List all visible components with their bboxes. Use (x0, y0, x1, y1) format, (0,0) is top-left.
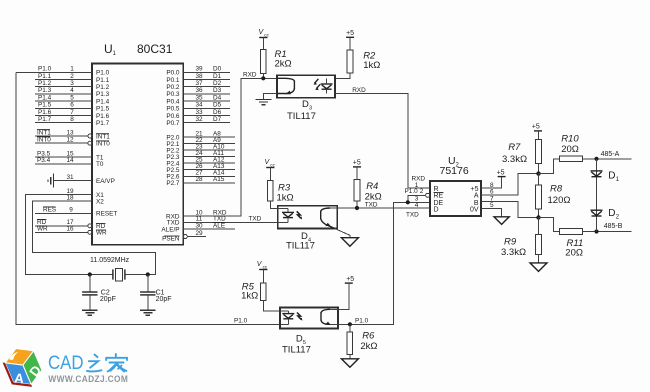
svg-text:3: 3 (70, 80, 74, 87)
svg-text:75176: 75176 (440, 165, 469, 177)
svg-text:D: D (608, 171, 615, 182)
svg-text:13: 13 (66, 129, 74, 136)
ground sideways at EA/VP (48, 174, 54, 188)
svg-text:P0.6: P0.6 (166, 113, 180, 120)
svg-text:4: 4 (70, 87, 74, 94)
resistor R6 2k (347, 324, 377, 359)
svg-text:28: 28 (195, 176, 203, 183)
svg-text:D5: D5 (213, 102, 222, 109)
svg-text:2kΩ: 2kΩ (360, 341, 377, 352)
svg-text:R8: R8 (550, 184, 563, 195)
node RE DE junction (406, 200, 410, 204)
svg-text:16: 16 (66, 226, 74, 233)
wire RD stub pin 17 with bubble (35, 219, 92, 228)
wire P1.7 stub pin 8 (35, 116, 92, 123)
light arrow inside D4 (297, 211, 302, 219)
op-amp U2 body 75176 transceiver box (430, 155, 481, 216)
svg-text:RXD: RXD (412, 175, 426, 182)
node crystal right junction (146, 272, 150, 276)
svg-text:TXD: TXD (249, 216, 262, 223)
svg-text:R9: R9 (504, 237, 517, 248)
svg-text:D1: D1 (213, 73, 222, 80)
ground arrow below R6 (341, 359, 358, 368)
svg-text:+5: +5 (353, 160, 361, 167)
ground arrow below U2 pin 5 (494, 217, 509, 225)
svg-text:12: 12 (66, 137, 74, 144)
svg-text:20pF: 20pF (100, 296, 116, 303)
wire P1.0 net from pin 1 down and along bottom to optocoupler D5 (16, 72, 288, 324)
wire U2 pin 6 A to node A (481, 174, 539, 196)
svg-text:33: 33 (195, 109, 203, 116)
svg-text:P1.7: P1.7 (38, 116, 52, 123)
svg-text:32: 32 (195, 116, 203, 123)
svg-text:P1.5: P1.5 (38, 102, 52, 109)
wire P2.3 stub pin 24 A11 (183, 150, 235, 157)
svg-text:120Ω: 120Ω (548, 195, 571, 206)
logo cube CAD (0, 342, 48, 392)
svg-text:6: 6 (70, 102, 74, 109)
wire diode column between 485-A and 485-B (596, 159, 598, 232)
svg-text:D4: D4 (213, 94, 222, 101)
wire D3 emitter to ground (264, 94, 278, 99)
svg-text:P3.4: P3.4 (37, 157, 51, 164)
svg-text:P1.6: P1.6 (96, 113, 110, 120)
svg-text:TIL117: TIL117 (286, 241, 315, 252)
svg-text:P1.4: P1.4 (38, 94, 52, 101)
svg-text:8: 8 (70, 116, 74, 123)
svg-text:36: 36 (195, 87, 203, 94)
wire node B to R11 (539, 218, 560, 232)
svg-text:+5: +5 (346, 276, 354, 283)
+5 symbol above R2 (346, 30, 354, 50)
crystal Y1 11.0592MHz (90, 257, 130, 281)
svg-text:P1.2: P1.2 (96, 84, 110, 91)
svg-text:TIL117: TIL117 (287, 111, 316, 122)
svg-text:A: A (474, 193, 479, 200)
svg-text:485-B: 485-B (604, 223, 623, 230)
svg-text:T0: T0 (96, 161, 104, 168)
svg-text:+5: +5 (346, 30, 354, 37)
svg-text:P0.3: P0.3 (166, 91, 180, 98)
svg-text:TXD: TXD (365, 201, 378, 208)
diode D2 (591, 208, 620, 221)
svg-text:D7: D7 (213, 116, 222, 123)
svg-text:30: 30 (195, 222, 203, 229)
svg-text:R7: R7 (508, 142, 521, 153)
svg-text:TXD: TXD (406, 212, 419, 219)
svg-text:11.0592MHz: 11.0592MHz (90, 257, 130, 264)
wire P0.1 stub pin 38 D1 (183, 73, 230, 80)
+5 symbol above R4 (353, 160, 361, 180)
svg-text:P1.0: P1.0 (355, 318, 369, 325)
transistor phototransistor of D4 (321, 208, 335, 228)
svg-text:2: 2 (616, 214, 620, 220)
svg-text:ALE/P: ALE/P (161, 226, 179, 233)
svg-text:EA/VP: EA/VP (96, 178, 115, 185)
svg-text:INT1: INT1 (96, 133, 110, 140)
svg-text:P0.4: P0.4 (166, 98, 180, 105)
svg-text:14: 14 (66, 157, 74, 164)
pin names inside U1 right column (161, 70, 180, 243)
Vcc symbol above R1 (259, 29, 270, 49)
svg-text:1kΩ: 1kΩ (363, 60, 380, 71)
svg-text:D6: D6 (213, 109, 222, 116)
wire P0.0 stub pin 39 D0 (183, 66, 230, 73)
op-amp U1 body 80C31 microcontroller box (92, 42, 183, 245)
svg-text:P1.0: P1.0 (96, 70, 110, 77)
svg-text:2: 2 (420, 188, 424, 195)
svg-text:P2.7: P2.7 (166, 180, 180, 187)
wire P1.4 stub pin 5 (35, 94, 92, 101)
svg-text:35: 35 (195, 94, 203, 101)
wire P2.6 stub pin 27 A14 (183, 170, 235, 177)
svg-text:P1.5: P1.5 (96, 106, 110, 113)
svg-text:18: 18 (66, 194, 74, 201)
resistor R4 2k (354, 180, 382, 209)
wire P0.3 stub pin 36 D3 (183, 87, 230, 94)
svg-text:RXD: RXD (243, 72, 257, 79)
wire P0.2 stub pin 37 D2 (183, 80, 230, 87)
node A junction (536, 171, 540, 175)
wire P1.3 stub pin 4 (35, 87, 92, 94)
svg-text:D3: D3 (213, 87, 222, 94)
wire PSEN stub pin 29 with bubble (183, 230, 206, 239)
svg-text:P1.0: P1.0 (405, 188, 419, 195)
svg-text:P1.3: P1.3 (96, 91, 110, 98)
pin names inside U1 left column (96, 70, 117, 237)
svg-text:INT0: INT0 (37, 137, 51, 144)
svg-text:5: 5 (490, 202, 494, 209)
capacitor C1 20pF (140, 275, 171, 310)
node crystal left junction (88, 272, 92, 276)
resistor R2 1k (335, 50, 380, 79)
svg-text:P0.1: P0.1 (166, 77, 180, 84)
wire P2.4 stub pin 25 A12 (183, 157, 235, 164)
optocoupler D5 TIL117 box (280, 308, 338, 356)
svg-text:RXD: RXD (352, 87, 366, 94)
svg-text:P0.7: P0.7 (166, 120, 180, 127)
svg-text:P1.0: P1.0 (38, 66, 52, 73)
wire P2.1 stub pin 22 A9 (183, 137, 235, 144)
wire P3.4 stub pin 14 (35, 157, 92, 164)
svg-text:7: 7 (70, 109, 74, 116)
wire D4 collector TXD to U2 pin 4 (330, 201, 430, 208)
ground below D3 emitter (256, 99, 272, 104)
svg-text:D: D (608, 208, 615, 219)
wire X2 pin 18 to crystal (33, 194, 156, 274)
wire P2.2 stub pin 23 A10 (183, 143, 235, 150)
wire RESET stub pin 9 (35, 207, 92, 214)
wire TXD from pin 11 to optocoupler D4 (183, 216, 277, 223)
svg-text:TIL117: TIL117 (282, 344, 311, 355)
resistor R1 2k (261, 49, 292, 78)
svg-text:INT1: INT1 (37, 129, 51, 136)
resistor R5 1k (241, 281, 280, 311)
svg-text:WR: WR (37, 226, 48, 233)
svg-text:80C31: 80C31 (137, 42, 173, 56)
pin labels left of U2 (405, 175, 426, 218)
wire INT1 stub pin 13 with bubble (35, 129, 92, 138)
svg-text:5: 5 (70, 94, 74, 101)
node B junction (536, 215, 540, 219)
wire P1.5 stub pin 6 (35, 102, 92, 109)
svg-text:RESET: RESET (96, 211, 117, 218)
svg-text:29: 29 (195, 230, 203, 237)
resistor R9 3.3k (501, 218, 541, 263)
wire +5 to D5 collector (330, 276, 354, 309)
optocoupler D4 TIL117 box (278, 206, 338, 252)
resistor R11 20 ohm (560, 229, 632, 259)
wire P1.0 stub to pin 1 (16, 66, 92, 73)
svg-text:RE: RE (434, 193, 444, 200)
wire node A to R10 (539, 159, 560, 174)
LED inside D5 (280, 311, 294, 324)
svg-text:WR: WR (96, 230, 107, 237)
svg-text:CAD: CAD (48, 352, 84, 374)
diode D1 (591, 171, 620, 184)
svg-text:1kΩ: 1kΩ (241, 291, 258, 302)
light arrows inside D3 (313, 79, 320, 90)
svg-text:3.3kΩ: 3.3kΩ (502, 154, 527, 165)
svg-text:2: 2 (70, 73, 74, 80)
wire P1.1 stub pin 2 (35, 73, 92, 80)
wire U2 pin 8 to +5 (481, 169, 506, 188)
wire P2.0 stub pin 21 A8 (183, 130, 235, 137)
svg-text:D: D (434, 206, 439, 213)
resistor R10 20 ohm (560, 134, 632, 162)
svg-text:RES: RES (43, 207, 56, 214)
wire RXD from pin 10 up to optocoupler D3 (183, 72, 277, 217)
svg-text:P1.7: P1.7 (96, 120, 110, 127)
svg-text:cc: cc (264, 32, 269, 37)
wire P3.5 stub pin 15 (35, 150, 92, 157)
LED inside D3 (321, 79, 333, 94)
wire EA/VP pin 31 (54, 174, 93, 181)
Vcc symbol above R5 (257, 261, 268, 283)
wire U2 pin 5 0V to ground (481, 202, 502, 217)
ground arrow below D4 (341, 238, 358, 247)
svg-text:+5: +5 (532, 124, 540, 131)
logo text CAD zhijia (48, 352, 127, 374)
wire P2.5 stub pin 26 A13 (183, 163, 235, 170)
node P1.0 junction at R6 (348, 322, 352, 326)
capacitor C2 20pF (82, 275, 116, 310)
wire P0.5 stub pin 34 D5 (183, 102, 230, 109)
svg-text:INT0: INT0 (96, 141, 110, 148)
svg-text:WWW.CADZJ.COM: WWW.CADZJ.COM (48, 374, 128, 385)
svg-text:8: 8 (490, 182, 494, 189)
svg-text:1: 1 (70, 66, 74, 73)
svg-text:P1.1: P1.1 (96, 77, 110, 84)
svg-text:P1.2: P1.2 (38, 80, 52, 87)
svg-text:1kΩ: 1kΩ (277, 193, 294, 204)
svg-text:D: D (302, 99, 309, 110)
wire INT0 stub pin 12 with bubble (35, 137, 92, 146)
svg-text:1: 1 (113, 51, 117, 57)
wire P0.6 stub pin 33 D6 (183, 109, 230, 116)
ground below C2 (82, 310, 97, 315)
+5 symbol above R7 (532, 124, 542, 140)
svg-text:P0.2: P0.2 (166, 84, 180, 91)
wire P1.2 stub pin 3 (35, 80, 92, 87)
svg-text:U: U (104, 42, 113, 56)
wire WR stub pin 16 with bubble (35, 226, 92, 235)
svg-text:20Ω: 20Ω (561, 144, 579, 155)
wire P0.7 stub pin 32 D7 (183, 116, 230, 123)
wire RXD output of D3 to U2 pin 1 (335, 87, 430, 188)
svg-text:D: D (296, 334, 303, 345)
node 485-B junction (594, 223, 622, 234)
ground below C1 (140, 310, 155, 315)
wire U2 pin 2 RE with bubble tied to DE (408, 193, 430, 202)
wire P2.7 stub pin 28 A15 (183, 176, 235, 183)
wire U2 pin 7 B to node B (481, 196, 539, 218)
LED inside D4 (278, 209, 294, 223)
wire P0.4 stub pin 35 D4 (183, 94, 230, 101)
svg-text:D0: D0 (213, 66, 222, 73)
svg-text:P1.6: P1.6 (38, 109, 52, 116)
svg-text:0V: 0V (470, 206, 479, 213)
wire D4 emitter to ground arrow (335, 228, 350, 237)
wire X1 pin 19 to crystal (25, 188, 113, 275)
resistor R7 3.3k (502, 140, 541, 174)
svg-text:cc: cc (263, 264, 268, 269)
svg-text:39: 39 (195, 66, 203, 73)
svg-text:A15: A15 (213, 176, 225, 183)
svg-text:485-A: 485-A (601, 151, 620, 158)
svg-text:R10: R10 (561, 134, 579, 145)
Vcc symbol above R3 (265, 159, 276, 181)
svg-text:P1.3: P1.3 (38, 87, 52, 94)
svg-text:X2: X2 (96, 198, 104, 205)
svg-text:9: 9 (69, 207, 73, 214)
resistor R3 1k (268, 181, 294, 209)
svg-text:3.3kΩ: 3.3kΩ (501, 247, 526, 258)
svg-text:20pF: 20pF (156, 296, 172, 303)
transistor phototransistor of D5 (321, 309, 331, 325)
optocoupler D3 TIL117 box (277, 75, 335, 122)
svg-text:P1.4: P1.4 (96, 98, 110, 105)
transistor phototransistor of D3 (277, 78, 294, 94)
node RXD junction at R1 (261, 76, 265, 80)
svg-text:34: 34 (195, 102, 203, 109)
light arrow inside D5 (297, 313, 302, 321)
svg-text:D2: D2 (213, 80, 222, 87)
svg-text:cc: cc (270, 162, 275, 167)
node 485-A junction (594, 151, 619, 161)
wire P1.6 stub pin 7 (35, 109, 92, 116)
svg-text:A: A (14, 371, 25, 387)
svg-text:P1.0: P1.0 (234, 318, 248, 325)
svg-text:4: 4 (415, 202, 419, 209)
wire ALE stub pin 30 (183, 222, 235, 229)
svg-text:+5: +5 (497, 169, 505, 176)
svg-text:P1.1: P1.1 (38, 73, 52, 80)
svg-text:PSEN: PSEN (162, 236, 180, 243)
svg-text:ALE: ALE (213, 222, 225, 229)
node TXD junction at R4 (355, 206, 359, 210)
svg-text:37: 37 (195, 80, 203, 87)
svg-text:31: 31 (66, 174, 74, 181)
wire D5 emitter P1.0 output to U2 RE DE (330, 202, 430, 324)
ground arrow below R9 (530, 263, 547, 272)
resistor R8 120 ohm (536, 174, 571, 218)
svg-text:20Ω: 20Ω (565, 247, 583, 258)
svg-text:P0.5: P0.5 (166, 106, 180, 113)
svg-text:2kΩ: 2kΩ (275, 58, 292, 69)
svg-text:38: 38 (195, 73, 203, 80)
svg-text:1: 1 (616, 177, 620, 183)
svg-text:P0.0: P0.0 (166, 70, 180, 77)
